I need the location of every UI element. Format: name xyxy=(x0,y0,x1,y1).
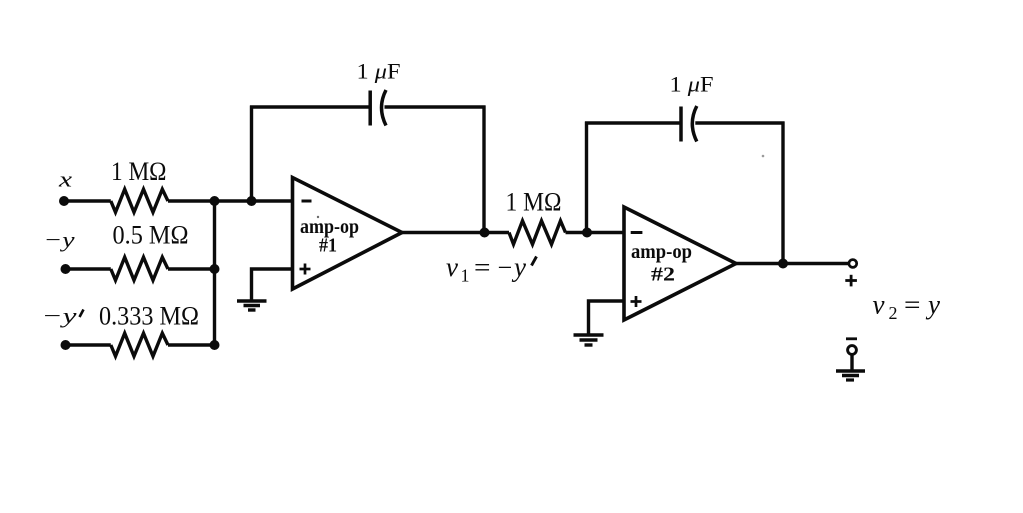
svg-text:x: x xyxy=(58,167,73,192)
svg-text:=: = xyxy=(904,291,921,320)
wire: feedback 1 right vertical xyxy=(482,106,485,235)
capacitor C1 left plate xyxy=(368,91,372,126)
svg-text:y: y xyxy=(925,290,940,320)
svg-text:−y: −y xyxy=(44,227,75,252)
wire: row x to op-amp 1 minus input xyxy=(168,199,294,202)
scan speck near feedback 2 corner xyxy=(762,155,765,158)
svg-text:0.5 MΩ: 0.5 MΩ xyxy=(113,221,189,250)
svg-text:#1: #1 xyxy=(319,235,337,257)
wire: input row x left segment xyxy=(64,199,111,202)
plus sign at output terminal xyxy=(845,275,857,287)
resistor R1 1 MΩ (input x) xyxy=(111,189,168,212)
wire: coupling resistor to op-amp 2 minus input xyxy=(566,231,626,234)
junction bus row1 xyxy=(210,196,220,206)
junction op-amp 1 output node xyxy=(480,228,490,238)
label v1 prime xyxy=(532,257,537,266)
ground G1 line 2 xyxy=(244,304,261,307)
ground G1 line 3 xyxy=(248,308,256,311)
wire: feedback 2 left vertical xyxy=(585,122,588,235)
op-amp 2 plus input marker xyxy=(631,296,642,307)
junction feedback 1 at op-amp 1 input xyxy=(247,196,257,206)
ground G3 line 2 xyxy=(842,374,859,378)
open terminal v2 plus xyxy=(849,260,857,268)
wire: op-amp 1 output xyxy=(402,231,509,234)
op-amp 1 minus input marker xyxy=(302,200,312,203)
wire: lower terminal stem xyxy=(850,355,853,370)
op-amp 2 minus input marker xyxy=(631,231,643,234)
open terminal v2 minus xyxy=(848,346,857,355)
wire: op-amp 2 output to terminal xyxy=(736,262,848,265)
svg-text:0.333 MΩ: 0.333 MΩ xyxy=(99,302,199,331)
ground G3 line 1 xyxy=(836,369,865,372)
junction bus row3 xyxy=(210,340,220,350)
wire: row -y' to bus xyxy=(168,343,215,346)
svg-text:v: v xyxy=(446,252,458,282)
scan speck above amp-op 1 xyxy=(317,216,319,218)
svg-text:−y: −y xyxy=(42,303,77,328)
wire: summing bus vertical xyxy=(213,200,216,347)
wire: feedback 2 top left segment xyxy=(585,121,681,124)
wire: input row -y left segment xyxy=(66,267,111,270)
terminal dot input -y xyxy=(61,264,71,274)
capacitor C2 left plate xyxy=(679,107,683,142)
svg-text:2: 2 xyxy=(889,303,898,323)
wire: op-amp 1 plus input to ground xyxy=(252,269,294,300)
svg-text:1 MΩ: 1 MΩ xyxy=(506,188,562,217)
svg-text:1 μF: 1 μF xyxy=(357,59,401,84)
ground G2 line 1 xyxy=(574,333,604,336)
wire: feedback 1 top left segment xyxy=(250,105,370,108)
wire: feedback 2 top right segment xyxy=(695,121,784,124)
op-amp 1 plus input marker xyxy=(300,264,311,275)
wire: row -y to bus xyxy=(168,267,215,270)
capacitor C2 right curved plate xyxy=(692,106,697,142)
resistor R4 1 MΩ (coupling) xyxy=(509,221,566,245)
ground G3 line 3 xyxy=(846,378,854,381)
junction bus row2 xyxy=(210,264,220,274)
ground G2 line 3 xyxy=(585,343,593,346)
svg-text:y: y xyxy=(511,252,526,282)
wire: feedback 1 top right segment xyxy=(385,105,486,108)
ground G2 line 2 xyxy=(580,338,598,341)
prime of -y' xyxy=(80,310,84,318)
svg-text:amp-op: amp-op xyxy=(631,239,692,263)
svg-text:1 MΩ: 1 MΩ xyxy=(111,157,167,186)
op-amp U1 triangle xyxy=(293,178,403,290)
svg-text:=: = xyxy=(474,253,491,282)
terminal dot input x xyxy=(59,196,69,206)
resistor R2 0.5 MΩ (input -y) xyxy=(111,257,168,280)
svg-text:v: v xyxy=(873,290,885,320)
terminal dot input -y' xyxy=(61,340,71,350)
resistor R3 0.333 MΩ (input -y') xyxy=(111,333,168,356)
junction op-amp 2 minus node xyxy=(582,228,592,238)
svg-text:1: 1 xyxy=(461,266,470,286)
capacitor C1 right curved plate xyxy=(382,90,387,126)
svg-text:1 μF: 1 μF xyxy=(670,72,714,97)
op-amp U2 triangle xyxy=(624,207,736,320)
svg-text:#2: #2 xyxy=(651,264,675,286)
ground G1 line 1 xyxy=(237,299,267,302)
minus dash above lower terminal xyxy=(846,337,857,340)
wire: feedback 1 left vertical xyxy=(250,106,253,203)
wire: feedback 2 right vertical xyxy=(781,122,784,266)
wire: op-amp 2 plus input to ground xyxy=(589,301,625,334)
junction op-amp 2 output node xyxy=(778,259,788,269)
svg-text:−: − xyxy=(498,253,513,282)
wire: input row -y' left segment xyxy=(66,343,111,346)
